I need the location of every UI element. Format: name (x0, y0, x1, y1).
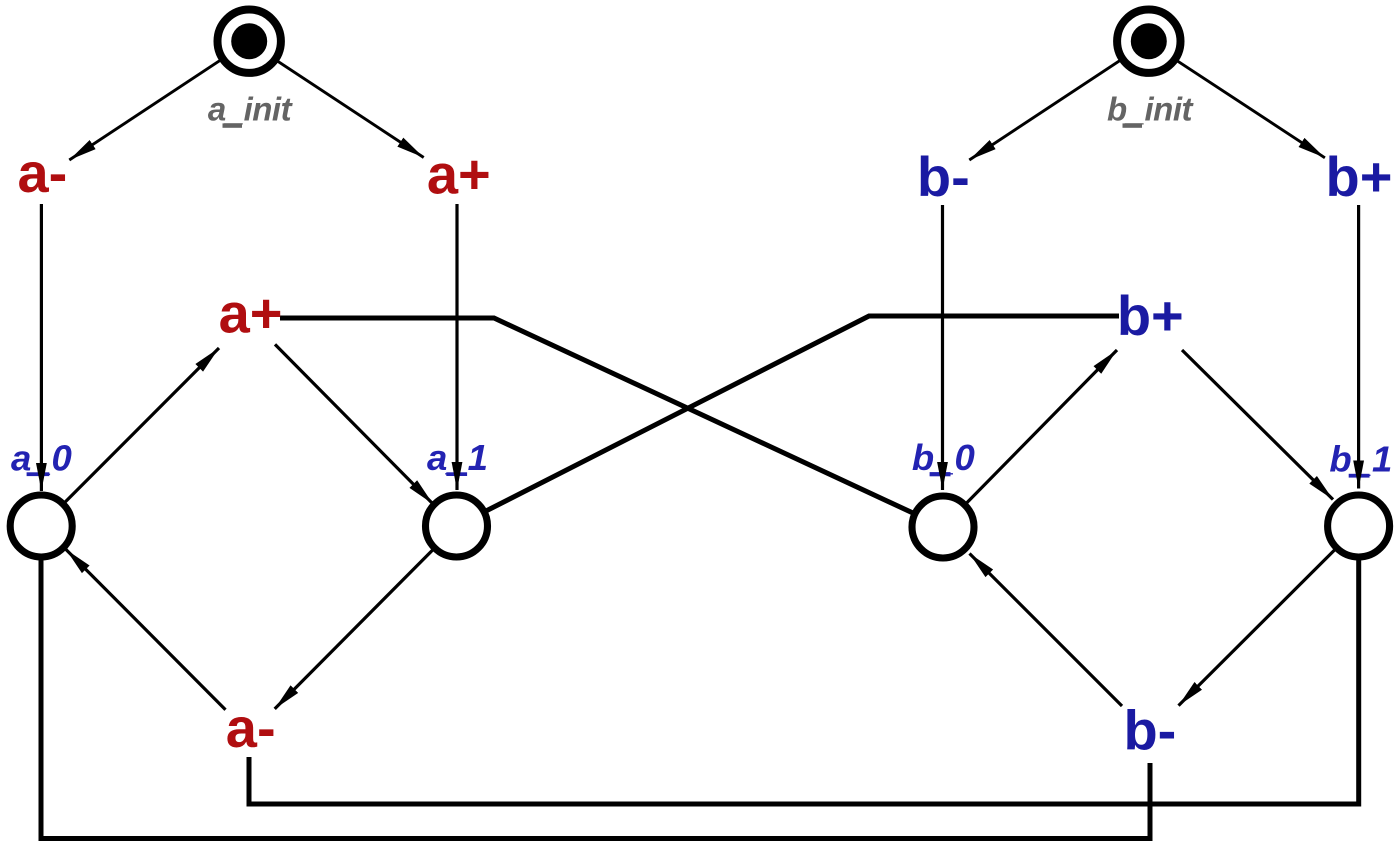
place a_init (218, 10, 281, 73)
svg-text:b-: b- (1123, 699, 1176, 762)
wire place a_0 to a+ mid (41, 348, 219, 526)
wire b- top to place b_0 (941, 205, 944, 490)
svg-text:b+: b+ (1117, 284, 1184, 347)
wire b- bottom to place b_0 (970, 554, 1123, 707)
svg-text:b+: b+ (1326, 145, 1393, 208)
svg-text:a+: a+ (219, 281, 283, 344)
wire b- bottom to place a_0 along bottom (41, 526, 1150, 839)
wire a_init to a- top (69, 42, 248, 160)
place a_1 (426, 495, 488, 557)
wire b+ top to place b_1 (1357, 205, 1360, 489)
underscore of a_init label (223, 123, 243, 127)
svg-text:a_init: a_init (208, 91, 294, 128)
place a_0 (10, 495, 72, 557)
wire b+ mid to place a_1 crossing (457, 316, 1120, 526)
svg-text:b-: b- (917, 145, 970, 208)
wire b+ mid to place b_1 (1182, 350, 1333, 500)
underscore of a_0 label (27, 472, 50, 476)
wire b_init to b- top (969, 42, 1148, 160)
place b_init (1117, 10, 1180, 73)
wire a- bottom to place a_0 (66, 550, 226, 710)
wire place b_0 to b+ mid (943, 350, 1117, 527)
svg-text:a-: a- (226, 696, 276, 759)
svg-text:b_1: b_1 (1329, 439, 1392, 480)
underscore of b_init label (1123, 123, 1143, 127)
svg-text:a+: a+ (427, 142, 491, 205)
token of b_init (1131, 23, 1167, 59)
wire place a_1 to a- bottom (275, 526, 457, 709)
token of a_init (231, 23, 267, 59)
place b_0 (912, 496, 974, 558)
wire b_init to b+ top (1148, 42, 1325, 158)
underscore of b_0 label (930, 472, 951, 476)
svg-text:b_init: b_init (1107, 91, 1195, 128)
wire a- bottom to place b_1 along bottom (249, 526, 1359, 804)
wire a+ mid to place a_1 (275, 344, 433, 504)
svg-text:a-: a- (18, 141, 68, 204)
underscore of a_1 label (446, 472, 467, 476)
wire a_init to a+ top (248, 42, 424, 158)
wire a+ top to place a_1 (455, 204, 458, 490)
place b_1 (1328, 495, 1390, 557)
wire a- top to place a_0 (40, 204, 43, 491)
wire place b_1 to b- bottom (1179, 526, 1359, 706)
underscore of b_1 label (1349, 474, 1370, 478)
wire a+ mid to place b_0 crossing (280, 318, 943, 527)
